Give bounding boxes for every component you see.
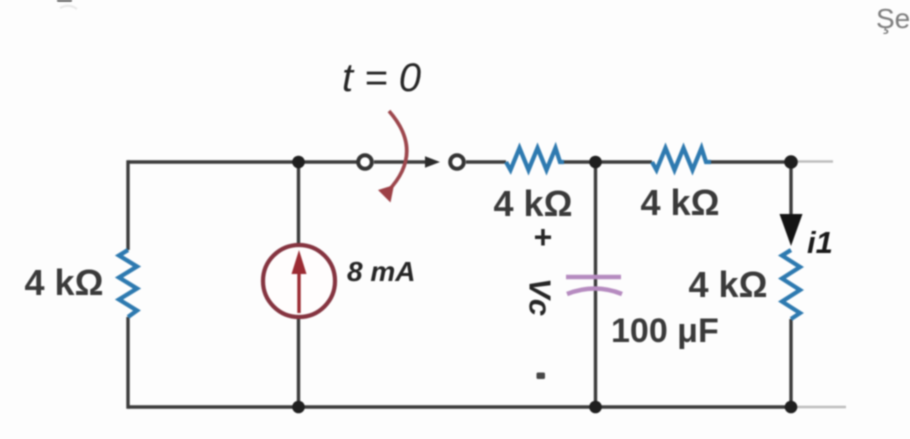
svg-text:Şek: Şek xyxy=(876,3,910,34)
svg-text:8 mA: 8 mA xyxy=(347,256,415,287)
svg-text:4 kΩ: 4 kΩ xyxy=(641,182,720,223)
svg-text:4 kΩ: 4 kΩ xyxy=(689,264,768,305)
svg-text:4 kΩ: 4 kΩ xyxy=(25,262,104,303)
svg-text:+: + xyxy=(534,219,553,255)
svg-text:t = 0: t = 0 xyxy=(342,56,421,100)
svg-text:4 kΩ: 4 kΩ xyxy=(494,183,573,224)
svg-text:i1: i1 xyxy=(807,225,833,260)
svg-text:100 μF: 100 μF xyxy=(611,312,719,350)
svg-text:Vc: Vc xyxy=(523,278,558,316)
